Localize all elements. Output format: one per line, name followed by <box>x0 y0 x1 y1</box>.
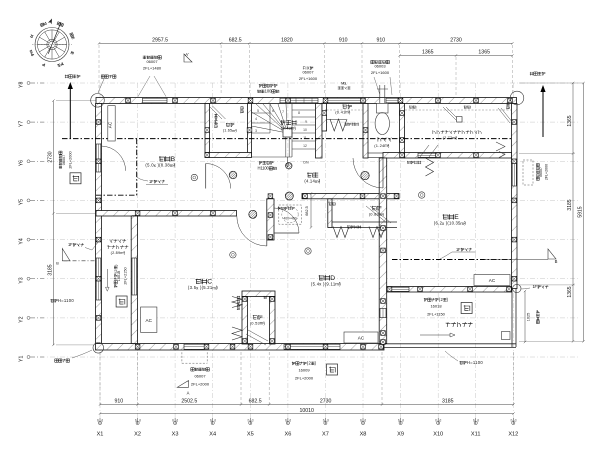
Y axis labels <box>19 82 45 362</box>
svg-text:1820: 1820 <box>281 37 293 43</box>
svg-text:X1: X1 <box>97 432 104 438</box>
svg-text:2FL+1600: 2FL+1600 <box>371 70 390 75</box>
section marker A bottom <box>177 381 188 388</box>
wall toilet bottom <box>383 153 405 159</box>
wall stair right <box>316 104 323 159</box>
svg-text:H=1100: H=1100 <box>58 298 75 303</box>
svg-text:AC: AC <box>108 121 113 128</box>
svg-text:06007: 06007 <box>302 70 314 75</box>
svg-text:1F: 1F <box>533 284 538 289</box>
svg-text:2502.5: 2502.5 <box>181 399 197 405</box>
svg-text:10: 10 <box>303 128 307 132</box>
svg-text:d: d <box>364 419 366 423</box>
inner balcony wall <box>131 216 137 344</box>
note 母屋下げ right <box>530 72 534 76</box>
top outer wall <box>96 98 517 104</box>
wall toilet left <box>363 104 368 159</box>
svg-text:b: b <box>511 419 513 423</box>
svg-text:4: 4 <box>255 117 257 121</box>
note 引違い窓 inner balcony vertical <box>113 264 118 288</box>
svg-text:1365: 1365 <box>567 115 573 126</box>
svg-text:2FL+2000: 2FL+2000 <box>545 164 549 180</box>
window swing 洋室B left <box>101 146 126 171</box>
svg-text:b: b <box>172 419 174 423</box>
svg-text:(2.89: (2.89 <box>111 251 120 255</box>
svg-text:2FL+2000: 2FL+2000 <box>69 151 73 168</box>
note 収納折戸 C closet <box>237 296 240 310</box>
right dimensions <box>519 82 585 343</box>
svg-text:X2: X2 <box>134 432 141 438</box>
svg-text:b: b <box>323 419 325 423</box>
svg-text:(2: (2 <box>439 297 444 302</box>
svg-text:1365: 1365 <box>567 286 573 297</box>
svg-text:3: 3 <box>255 129 257 133</box>
svg-text:3185: 3185 <box>47 264 53 275</box>
透 box balcony <box>461 303 472 314</box>
note 枕棚 B closet <box>240 107 243 114</box>
wall closet upper left <box>322 104 327 132</box>
wall WIC bottom <box>405 153 512 159</box>
label インナーバルコニー <box>110 239 113 242</box>
corner pillar circles <box>91 94 105 108</box>
AC unit 洋室B <box>108 106 115 141</box>
svg-text:b: b <box>436 419 438 423</box>
note 引違い窓 balcony <box>424 298 427 301</box>
label トイレ <box>378 137 381 142</box>
svg-text:910: 910 <box>114 399 123 405</box>
svg-text:12: 12 <box>303 144 307 148</box>
svg-text:X12: X12 <box>508 432 518 438</box>
note 棚 D closet <box>329 202 332 205</box>
round posts <box>229 171 237 179</box>
1F window projection dashes <box>181 352 183 363</box>
svg-text:b: b <box>210 419 212 423</box>
svg-text:2FL+2150: 2FL+2150 <box>123 267 127 284</box>
note 縦滑り出し left vertical <box>59 151 62 169</box>
svg-text:1F: 1F <box>68 242 73 247</box>
svg-text:2730: 2730 <box>47 151 53 162</box>
svg-text:d: d <box>440 419 442 423</box>
母屋下げ arrow right <box>542 90 544 137</box>
svg-text:d: d <box>176 419 178 423</box>
svg-text:X4: X4 <box>209 432 216 438</box>
note 柱ふかし bottom <box>55 359 58 362</box>
svg-text:d: d <box>214 419 216 423</box>
svg-text:X7: X7 <box>322 432 329 438</box>
wall posts <box>96 98 516 349</box>
svg-text:Y6: Y6 <box>19 160 25 166</box>
svg-text:X11: X11 <box>471 432 481 438</box>
note 横滑り出し bottom <box>191 368 194 371</box>
svg-text:16018: 16018 <box>430 304 442 309</box>
balcony drain box <box>502 332 511 340</box>
wall corridor left <box>267 199 274 240</box>
svg-text:6: 6 <box>272 109 274 113</box>
svg-text:X6: X6 <box>284 432 291 438</box>
svg-text:B: B <box>555 259 558 264</box>
compass rose <box>29 18 74 68</box>
note 柱ふかし top <box>101 75 104 78</box>
svg-text:AC: AC <box>489 278 496 283</box>
svg-text:Y3: Y3 <box>19 277 25 283</box>
note 横滑り出し right vertical <box>523 160 533 185</box>
section marker B right <box>548 249 556 259</box>
svg-text:1F: 1F <box>149 179 154 184</box>
svg-text:1365: 1365 <box>478 50 490 56</box>
svg-text:Y7: Y7 <box>19 121 25 127</box>
note 手摺 H=1100 balcony <box>460 361 463 364</box>
svg-text:d: d <box>101 419 103 423</box>
svg-text:)(8.38: )(8.38 <box>157 163 170 168</box>
right outer wall <box>512 104 518 289</box>
svg-text:06003: 06003 <box>374 64 386 69</box>
closet 洋室C <box>232 291 275 345</box>
note 手摺 H=1100 left <box>51 299 54 302</box>
svg-text:MGL: MGL <box>341 81 347 85</box>
svg-text:5915: 5915 <box>578 206 584 217</box>
note 収納折戸 WIC <box>407 161 410 164</box>
WIC hanger pipes <box>405 107 513 123</box>
note 1025 玄関先端 <box>524 291 526 342</box>
svg-text:16018: 16018 <box>117 271 121 282</box>
svg-text:)(9.11: )(9.11 <box>323 282 336 287</box>
closet upper folding door <box>327 119 347 121</box>
svg-text:(1.65: (1.65 <box>223 129 232 133</box>
closet 洋室D <box>328 199 397 238</box>
svg-text:06007: 06007 <box>146 59 158 64</box>
svg-text:B: B <box>56 262 59 266</box>
svg-text:682.5: 682.5 <box>229 37 242 43</box>
svg-text:d: d <box>515 419 517 423</box>
label 廊下 <box>307 172 312 177</box>
note 枕棚 WIC x2 <box>409 106 412 109</box>
note 縦滑り出し 06007 2FL+1480 <box>143 56 146 59</box>
1F line right <box>392 259 512 261</box>
svg-text:3185: 3185 <box>567 199 573 210</box>
AC unit 洋室C <box>141 307 157 332</box>
left outer wall <box>96 104 102 344</box>
wall stair left <box>248 104 252 157</box>
svg-text:3185: 3185 <box>442 399 454 405</box>
wall closet bottom / stair <box>205 153 252 158</box>
透 box bottom <box>327 364 338 375</box>
svg-text:2957.5: 2957.5 <box>152 37 168 43</box>
svg-text:5: 5 <box>257 109 259 113</box>
svg-text:(2.72: (2.72 <box>443 136 452 140</box>
door トイレ <box>353 158 383 188</box>
label 洋室D <box>319 275 324 280</box>
note 腰壁手摺付 出幅100以内 <box>259 84 262 87</box>
svg-text:)(10.35: )(10.35 <box>446 221 461 226</box>
svg-text:10010: 10010 <box>299 408 314 414</box>
note 収納折戸 corridor closet <box>347 225 350 228</box>
door 洋室D <box>274 208 299 233</box>
svg-text:06007: 06007 <box>194 373 206 378</box>
door 洋室B <box>205 164 207 189</box>
note 母屋下げ left <box>65 75 69 79</box>
bottom outer wall <box>96 344 385 351</box>
母屋下げ arrow left <box>69 87 71 139</box>
left dimensions <box>47 99 96 346</box>
note 階段手摺 H1100以上 <box>259 161 262 164</box>
svg-text:7: 7 <box>282 110 284 114</box>
wall 洋室D/E <box>379 158 387 344</box>
label ウォークインクローゼット <box>433 130 435 134</box>
wall WIC left <box>400 104 405 153</box>
svg-text:d: d <box>402 419 404 423</box>
svg-text:H=1100: H=1100 <box>467 360 484 365</box>
balcony slope arrow <box>420 334 455 336</box>
svg-text:910: 910 <box>376 37 385 43</box>
svg-text:X10: X10 <box>433 432 443 438</box>
door 洋室E (WIC) <box>420 145 438 157</box>
stairs 階段室 <box>252 104 316 167</box>
svg-text:910: 910 <box>339 37 348 43</box>
svg-text:1F: 1F <box>456 247 461 252</box>
svg-text:682.5: 682.5 <box>249 399 262 405</box>
svg-text:d: d <box>327 419 329 423</box>
label バルコニー <box>446 322 451 327</box>
label 洋室C <box>196 279 201 284</box>
svg-text:d: d <box>139 419 141 423</box>
svg-text:b: b <box>248 419 250 423</box>
svg-text:400×400: 400×400 <box>283 217 296 221</box>
svg-text:Y1: Y1 <box>19 356 25 362</box>
svg-text:X9: X9 <box>397 432 404 438</box>
svg-text:d: d <box>289 419 291 423</box>
wall 洋室B/C <box>96 211 237 217</box>
wall corridor bottom <box>302 194 399 199</box>
note 収納折戸 B closet <box>214 114 217 128</box>
label 収納 upper <box>342 104 347 108</box>
svg-text:11: 11 <box>303 136 307 140</box>
svg-text:2FL+2000: 2FL+2000 <box>191 381 210 386</box>
svg-text:682.5: 682.5 <box>305 206 309 216</box>
note 棚 C closet <box>264 296 267 299</box>
svg-text:2FL+1600: 2FL+1600 <box>299 76 318 81</box>
svg-text:2FL+1480: 2FL+1480 <box>143 65 162 70</box>
bottom dimensions <box>99 352 515 415</box>
svg-text:(4.14: (4.14 <box>304 179 315 184</box>
AC unit 洋室D <box>344 332 378 343</box>
透 box inner balcony <box>116 296 127 307</box>
svg-text:X5: X5 <box>247 432 254 438</box>
note 682.5 closet dim <box>310 194 312 228</box>
svg-text:b: b <box>473 419 475 423</box>
balcony bottom edge <box>384 343 516 345</box>
svg-text:A: A <box>187 391 190 396</box>
svg-text:100: 100 <box>265 89 272 94</box>
section marker B left + 1F line stub <box>64 260 97 262</box>
inner balcony arrow <box>106 269 108 289</box>
svg-text:b: b <box>97 419 99 423</box>
svg-text:Y2: Y2 <box>19 316 25 322</box>
svg-text:1025: 1025 <box>527 313 531 321</box>
svg-text:2FL+1150: 2FL+1150 <box>427 312 446 317</box>
label 洋室E <box>443 214 448 219</box>
svg-text:2FL+2000: 2FL+2000 <box>295 375 314 380</box>
svg-text:2730: 2730 <box>320 399 332 405</box>
tatami marks <box>191 174 197 180</box>
label 洋室B <box>159 156 164 161</box>
svg-text:H1100: H1100 <box>258 166 270 171</box>
section marker A top <box>184 54 192 62</box>
svg-text:1365: 1365 <box>422 50 434 56</box>
toilet fixture <box>375 85 389 135</box>
label 収納 C <box>253 315 258 319</box>
svg-text:Y5: Y5 <box>19 199 25 205</box>
svg-text:8: 8 <box>298 111 300 115</box>
grid lines <box>30 83 578 418</box>
svg-text:2730: 2730 <box>450 37 462 43</box>
wall 洋室E/balcony <box>387 287 472 293</box>
label 収納 corridor <box>372 206 377 210</box>
label 階段室 <box>281 120 286 125</box>
母屋下げ line <box>62 138 512 140</box>
svg-text:X8: X8 <box>360 432 367 438</box>
svg-text:): ) <box>236 129 237 133</box>
note 収納 WIC vertical <box>506 103 509 110</box>
note 横滑り出し 06003 2FL+1600 <box>371 60 374 63</box>
透 box left upper <box>70 173 81 184</box>
svg-text:16009: 16009 <box>298 367 310 372</box>
svg-text:DN: DN <box>303 161 309 165</box>
天井点検口 <box>278 205 302 224</box>
svg-text:A': A' <box>185 52 189 57</box>
svg-text:Y8: Y8 <box>19 82 25 88</box>
svg-text:06007: 06007 <box>62 155 66 166</box>
svg-text:b: b <box>398 419 400 423</box>
svg-text:(2: (2 <box>307 361 312 366</box>
1F line left step <box>136 139 138 196</box>
closet B contents <box>209 106 222 119</box>
svg-text:)(5.21: )(5.21 <box>200 285 213 290</box>
svg-text:b: b <box>285 419 287 423</box>
X axis labels <box>97 418 519 438</box>
wall 洋室B closet <box>205 104 210 158</box>
WIC chevrons <box>426 158 434 176</box>
svg-text:X3: X3 <box>172 432 179 438</box>
svg-text:d: d <box>252 419 254 423</box>
top dimensions <box>98 37 514 95</box>
note 引違い窓 bottom <box>292 362 295 365</box>
svg-text:d: d <box>477 419 479 423</box>
svg-text:06007: 06007 <box>539 167 543 177</box>
door 洋室C <box>237 216 267 246</box>
svg-text:AC: AC <box>146 318 153 323</box>
svg-text:b: b <box>360 419 362 423</box>
svg-text:AC: AC <box>358 336 365 341</box>
svg-text:Y4: Y4 <box>19 238 25 244</box>
svg-text:b: b <box>135 419 137 423</box>
balcony right edge <box>511 289 513 348</box>
svg-text:9: 9 <box>305 120 307 124</box>
AC unit 洋室E <box>474 275 510 286</box>
note 収納折戸 upper closet <box>345 123 348 126</box>
